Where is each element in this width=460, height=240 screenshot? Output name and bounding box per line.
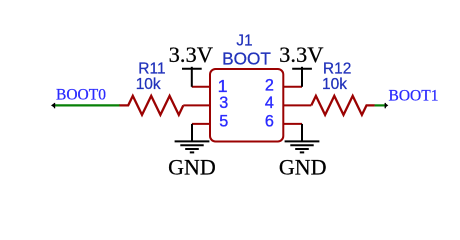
port arrow right — [385, 103, 388, 108]
pin 3 — [183, 104, 210, 106]
pin 4 — [283, 104, 311, 106]
svg-text:GND: GND — [168, 154, 216, 179]
connector J1 body — [210, 69, 283, 142]
ground right — [285, 124, 320, 152]
svg-text:R12: R12 — [323, 61, 351, 78]
svg-text:BOOT1: BOOT1 — [389, 87, 439, 104]
ground left — [175, 124, 210, 152]
svg-text:3.3V: 3.3V — [279, 42, 323, 67]
wire BOOT1 (green) — [375, 104, 386, 106]
svg-text:BOOT: BOOT — [222, 49, 271, 69]
svg-text:3.3V: 3.3V — [169, 42, 213, 67]
svg-text:GND: GND — [279, 154, 327, 179]
svg-text:5: 5 — [219, 113, 228, 131]
pin 1 — [192, 86, 210, 88]
resistor R11 — [119, 96, 183, 115]
svg-text:BOOT0: BOOT0 — [56, 87, 106, 104]
pin 5 — [192, 123, 210, 125]
resistor R12 — [311, 96, 375, 115]
svg-text:1: 1 — [218, 76, 228, 96]
power 3.3V left symbol — [182, 67, 202, 87]
power 3.3V right symbol — [292, 67, 312, 87]
wire BOOT0 (green) — [53, 104, 120, 106]
svg-text:R11: R11 — [138, 60, 165, 77]
svg-text:J1: J1 — [236, 32, 252, 49]
pin 2 — [283, 86, 302, 88]
svg-text:6: 6 — [265, 113, 274, 131]
pin 6 — [283, 123, 302, 125]
svg-text:3: 3 — [219, 94, 228, 112]
svg-text:10k: 10k — [322, 76, 347, 93]
svg-text:4: 4 — [265, 94, 274, 112]
svg-text:10k: 10k — [136, 76, 161, 93]
port arrow left — [51, 103, 55, 108]
svg-text:2: 2 — [265, 77, 274, 95]
